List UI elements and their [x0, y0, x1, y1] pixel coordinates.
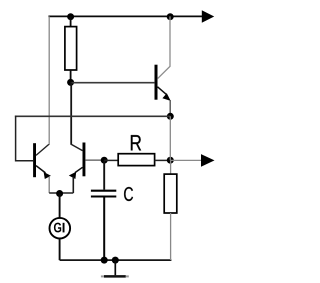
wire bottom rail — [60, 259, 172, 261]
wire current source bottom — [59, 239, 61, 261]
wire R left lead — [104, 159, 118, 161]
node common emitter — [56, 190, 63, 197]
wire capacitor bottom lead — [103, 198, 105, 261]
wire feedback riser — [169, 116, 171, 160]
wire R right lead — [155, 159, 171, 161]
transistor Q3 — [69, 143, 104, 194]
wire R1 top lead — [70, 16, 72, 26]
resistor R2 — [164, 174, 177, 213]
node top rail Q1 — [167, 13, 174, 20]
ground — [101, 260, 129, 276]
wire left collector riser — [48, 16, 50, 145]
wire Q3 collector riser — [70, 82, 72, 144]
wire common emitter bus — [49, 192, 73, 194]
resistor R1 — [65, 27, 77, 70]
wire feedback drop to Q2 base — [16, 116, 33, 161]
current source GI — [50, 218, 71, 239]
wire R1 bottom lead — [70, 70, 72, 82]
output arrow mid right — [201, 154, 215, 167]
wire top supply rail — [48, 15, 203, 17]
node capacitor ground — [101, 257, 108, 264]
wire feedback line — [15, 115, 170, 117]
wire output — [170, 159, 201, 161]
wire Q1 base — [71, 82, 155, 84]
wire R2 top lead — [170, 160, 172, 174]
label R — [131, 135, 141, 150]
node R1 bottom / Q1 base — [67, 79, 74, 86]
node base / R / C — [101, 157, 108, 164]
wire to current source — [59, 194, 61, 219]
resistor R — [118, 154, 154, 166]
label C — [124, 187, 133, 201]
node Q1 emitter / feedback — [167, 113, 174, 120]
node output — [167, 157, 174, 164]
transistor Q1 — [155, 16, 171, 116]
node top rail R1 — [67, 13, 74, 20]
wire capacitor top lead — [103, 160, 105, 189]
capacitor C — [91, 191, 116, 197]
output arrow top right — [202, 10, 214, 23]
wire R2 bottom lead — [170, 213, 172, 260]
transistor Q2 — [33, 143, 51, 193]
node ground tap — [112, 257, 119, 264]
